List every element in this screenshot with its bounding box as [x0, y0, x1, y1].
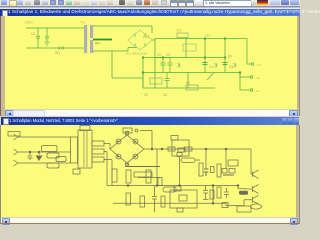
node out1: [251, 63, 261, 67]
diode D4: [116, 154, 121, 159]
capacitor C6: [223, 63, 234, 70]
resistor R12: [146, 170, 151, 183]
net label N: [47, 153, 66, 162]
node out2: [250, 76, 260, 80]
transistor Q2: [247, 185, 259, 194]
wire: [93, 26, 152, 33]
diode D5: [177, 63, 180, 68]
wire: [187, 73, 189, 89]
label capsule: [181, 158, 200, 163]
top application toolbar: [0, 0, 300, 6]
resistor R24: [210, 190, 214, 199]
component cluster: [222, 169, 235, 176]
front window (Schaltplan Modul, Netzteil): [0, 116, 300, 224]
resistor R26: [158, 178, 162, 186]
IC U1 top pin: [171, 136, 178, 141]
fuse F2 on bus: [177, 29, 188, 58]
title bar: [0, 9, 300, 16]
wire: [140, 131, 152, 150]
canvas area with frame: [0, 16, 1, 116]
resistor R17: [126, 193, 131, 205]
diode D6: [214, 63, 217, 68]
capacitor C16: [224, 188, 229, 198]
diode D1: [133, 139, 138, 144]
transformer T1 primary: [71, 137, 78, 163]
IC U1 left pin: [168, 147, 175, 151]
bridge rectifier GL1: [128, 30, 152, 50]
wire: [112, 51, 143, 78]
wire left rail: [142, 58, 144, 89]
wire: [239, 72, 250, 77]
transformer T1 secondary 2: [92, 149, 104, 154]
wire: [22, 151, 71, 153]
resistor R19: [161, 196, 165, 207]
horizontal scrollbar: [5, 109, 297, 117]
wire: [240, 73, 250, 91]
transformer T1 secondary 3: [92, 157, 104, 162]
capacitor C15: [152, 186, 157, 213]
net label: [239, 191, 248, 195]
wire label GL: [126, 34, 210, 56]
capacitor C13: [204, 169, 209, 176]
ground: [36, 151, 43, 161]
node L (mains input label): [25, 21, 34, 25]
transformer T1: [80, 21, 93, 54]
capacitor C3: [155, 53, 166, 73]
component box: [228, 160, 238, 166]
diode D2: [133, 154, 138, 159]
wire bridge bottom: [127, 163, 160, 167]
wire: [142, 73, 144, 89]
wire: [126, 131, 128, 135]
resistor R10: [112, 169, 117, 182]
wire bottom bus 1: [107, 185, 239, 187]
wire: [104, 152, 107, 186]
wire column A: [205, 149, 207, 169]
net label PE: [47, 163, 59, 168]
component box F2: [134, 172, 160, 178]
wire column B: [225, 149, 227, 168]
wire: [247, 39, 251, 65]
wire: [250, 149, 252, 171]
switch S1: [207, 73, 214, 81]
wire: [104, 160, 112, 186]
label text: [144, 54, 232, 97]
bridge rectifier GL1: [110, 135, 144, 163]
component small 2: [222, 203, 228, 208]
wire top bus segment y57: [142, 57, 225, 74]
wire: [104, 144, 110, 150]
component small: [211, 167, 215, 173]
ground: [45, 42, 50, 46]
wire: [22, 162, 71, 164]
connector X1 pin 3: [14, 160, 23, 166]
wire column x205: [204, 38, 206, 73]
back window (Schaltplan 1): [0, 6, 300, 116]
wire: [22, 136, 71, 138]
capacitor C10: [28, 151, 33, 160]
IC U2 top pin: [174, 186, 181, 191]
resistor R14: [217, 164, 221, 177]
capacitor C7: [165, 73, 170, 89]
resistor R25: [217, 187, 221, 198]
diode D7: [233, 63, 236, 68]
label capsule 2: [163, 187, 176, 192]
wire: [212, 186, 214, 205]
transistor Q1: [251, 170, 259, 179]
wire rectifier output rail: [154, 39, 156, 89]
canvas: [0, 125, 1, 224]
label box: [150, 78, 162, 84]
wire column x225: [224, 38, 226, 73]
net label L: [42, 146, 58, 152]
IC U1 inner: [178, 148, 185, 152]
transistor Q3: [250, 196, 259, 205]
IC U2 inner: [179, 195, 187, 201]
wire: [179, 157, 181, 186]
wire main bus: [144, 148, 251, 150]
fuse F1: [55, 47, 64, 55]
component box bottom right: [237, 206, 251, 212]
transformer T1 core: [78, 130, 92, 168]
capacitor C14: [203, 186, 209, 200]
capacitor C4: [163, 53, 173, 73]
horizontal scrollbar: [1, 217, 296, 224]
IC U1 bottom pin: [177, 153, 182, 157]
wire: [238, 186, 247, 189]
transformer T1 secondary 1: [92, 141, 104, 146]
IC U1 body: [172, 140, 189, 156]
wire bus2: [143, 72, 240, 74]
capacitor C5: [197, 59, 213, 69]
IC U1 right pin: [184, 147, 192, 151]
node mid-tap: [93, 40, 112, 46]
component small E: [73, 169, 80, 174]
wire: [26, 47, 84, 49]
resistor R1: [186, 81, 198, 90]
capacitor C2: [45, 28, 49, 42]
bottom frame line: [0, 223, 300, 224]
IC U2 body: [170, 190, 197, 208]
resistor R18: [140, 196, 145, 207]
relay K1: [183, 44, 196, 51]
connector X1 pin 2: [14, 149, 23, 155]
capacitor C1: [31, 28, 40, 48]
wire bottom bus 2: [113, 202, 226, 204]
node out3: [250, 89, 259, 93]
pin: [125, 132, 128, 135]
connector X1 pin 1: [8, 132, 22, 141]
title bar: [1, 117, 299, 125]
wire: [26, 27, 84, 29]
resistor R11: [126, 170, 131, 183]
wire bus3: [143, 87, 215, 89]
resistor R13: [199, 163, 203, 176]
wire: [212, 186, 214, 189]
transformer T1 shield: [80, 126, 90, 131]
pin: [125, 163, 128, 166]
wire +rail top bus: [152, 39, 247, 41]
diode D3: [116, 139, 121, 144]
wire: [226, 200, 250, 206]
wire: [93, 48, 137, 52]
label ellipse: [251, 204, 262, 209]
IC U2 bottom pin: [177, 208, 183, 212]
component K1: [123, 128, 138, 133]
wire: [156, 149, 158, 186]
